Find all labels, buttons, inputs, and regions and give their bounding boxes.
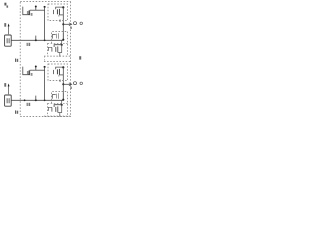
outer dashed box top edge — [20, 1, 70, 3]
node dot cell2 wire — [24, 99, 26, 101]
outer dashed box bottom edge — [20, 116, 70, 118]
label a subscript top-left — [7, 6, 9, 8]
dashed link between cells — [44, 56, 46, 62]
cell 2 — [4, 64, 82, 116]
label 1c left bottom — [15, 110, 16, 113]
label 8 right middle — [79, 56, 81, 59]
label 1b left middle — [15, 59, 16, 62]
label 7 top-left — [4, 3, 6, 6]
outer dashed box right edge — [70, 2, 72, 117]
outer dashed box left edge — [19, 2, 21, 117]
cell 1 — [4, 4, 82, 56]
cell 2 dashed top edge — [44, 61, 71, 63]
